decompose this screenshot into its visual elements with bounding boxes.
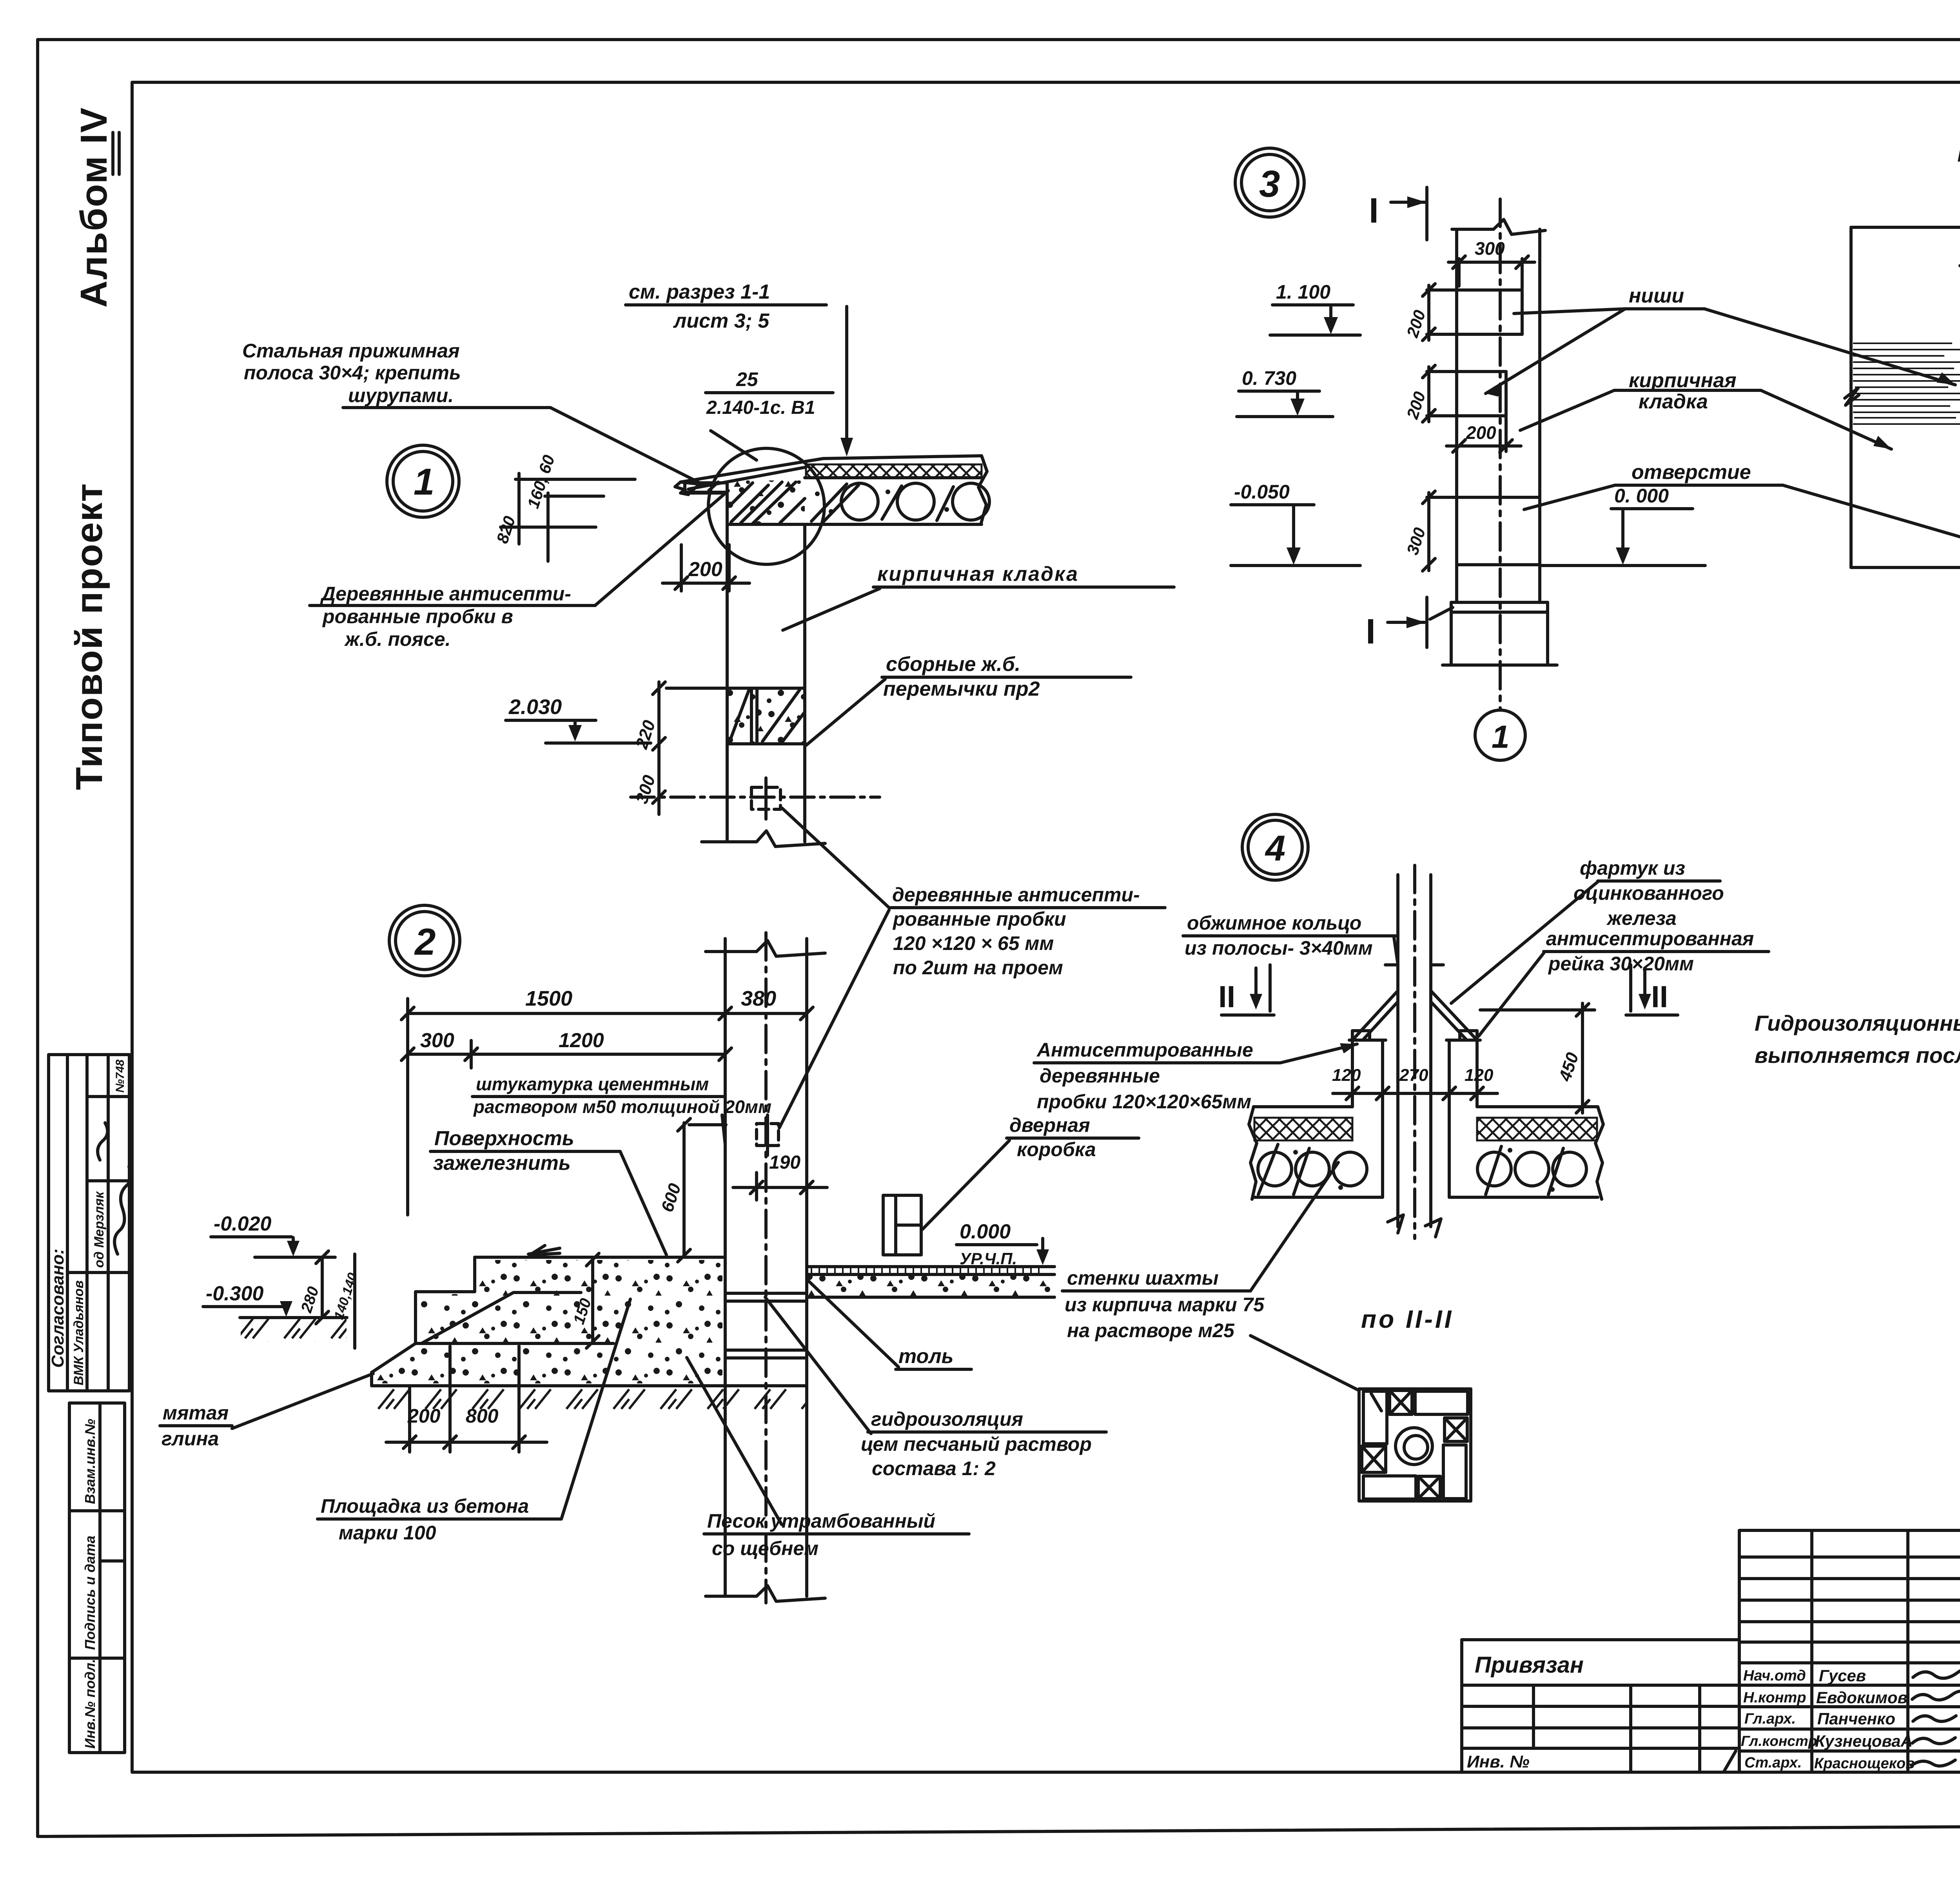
svg-text:Поверхность: Поверхность <box>434 1127 574 1150</box>
svg-text:200: 200 <box>688 558 722 581</box>
svg-text:перемычки пр2: перемычки пр2 <box>883 678 1040 700</box>
outer rect of plan <box>1851 226 1960 229</box>
svg-text:КузнецоваА: КузнецоваА <box>1815 1732 1913 1750</box>
privyazan block <box>1462 1640 1739 1772</box>
svg-text:120 ×120 × 65 мм: 120 ×120 × 65 мм <box>893 932 1054 954</box>
svg-text:железа: железа <box>1606 907 1677 929</box>
svg-text:кирпичная: кирпичная <box>1629 369 1737 392</box>
small left dims 820 /160,60 <box>517 473 521 544</box>
dim column 220 / 300 <box>657 682 661 814</box>
svg-text:300: 300 <box>420 1029 454 1052</box>
title block <box>1739 1530 1960 1820</box>
svg-text:Панченко: Панченко <box>1817 1709 1895 1728</box>
svg-text:200: 200 <box>407 1405 441 1427</box>
svg-text:Н.контр: Н.контр <box>1743 1689 1806 1706</box>
svg-text:кладка: кладка <box>1639 390 1708 413</box>
rotated margin text: Альбом IV <box>73 107 119 308</box>
svg-text:рейка 30×20мм: рейка 30×20мм <box>1548 953 1694 975</box>
svg-text:120: 120 <box>1332 1066 1361 1085</box>
wall lines <box>726 492 729 842</box>
left margin stamp: Согласовано <box>48 1055 132 1391</box>
svg-text:Гл.констр: Гл.констр <box>1741 1733 1817 1749</box>
clamp ring <box>1385 963 1398 966</box>
svg-text:выполняется после монтажа т: выполняется после монтажа трубопроводов <box>1755 1043 1960 1068</box>
svg-text:270: 270 <box>1399 1066 1428 1085</box>
svg-text:УР.Ч.П.: УР.Ч.П. <box>960 1249 1017 1268</box>
brick plan <box>1359 1389 1471 1501</box>
svg-text:120: 120 <box>1465 1066 1494 1085</box>
svg-text:1500: 1500 <box>525 987 572 1010</box>
roof slab <box>1254 1105 1352 1108</box>
svg-text:коробка: коробка <box>1017 1138 1096 1160</box>
opening zone <box>1457 496 1540 499</box>
plan view po I-I <box>1845 138 1960 576</box>
wooden plug square <box>751 787 780 809</box>
svg-text:Типовой проект: Типовой проект <box>68 483 110 790</box>
plug square in wall <box>757 1124 779 1146</box>
svg-text:мятая: мятая <box>163 1402 229 1424</box>
axis bubble 1 <box>1475 710 1525 760</box>
svg-text:-0.050: -0.050 <box>1234 481 1290 503</box>
svg-text:дверная: дверная <box>1009 1114 1090 1136</box>
floor right of wall <box>807 1265 1054 1268</box>
svg-text:Песок утрамбованный: Песок утрамбованный <box>707 1510 935 1532</box>
svg-text:2: 2 <box>414 921 436 963</box>
svg-text:раствором м50 толщиной 20мм: раствором м50 толщиной 20мм <box>473 1097 771 1117</box>
svg-text:Гл.арх.: Гл.арх. <box>1744 1711 1796 1727</box>
svg-text:0.000: 0.000 <box>960 1220 1011 1243</box>
svg-text:по I-I: по I-I <box>1957 138 1960 167</box>
base <box>1451 601 1548 604</box>
svg-text:II: II <box>1651 979 1668 1014</box>
lintel hatched <box>727 688 805 744</box>
svg-text:1. 100: 1. 100 <box>1276 281 1330 303</box>
svg-text:190: 190 <box>769 1152 800 1173</box>
svg-text:2.140-1с. В1: 2.140-1с. В1 <box>706 397 815 418</box>
crosshatch screed band over slab <box>806 464 982 478</box>
svg-text:из полосы- 3×40мм: из полосы- 3×40мм <box>1185 937 1373 959</box>
svg-text:рованные пробки в: рованные пробки в <box>322 605 513 627</box>
svg-text:I: I <box>1366 612 1376 651</box>
roofing note <box>1755 1011 1960 1068</box>
arrow on stoop top <box>528 1245 560 1255</box>
svg-text:рованные пробки: рованные пробки <box>892 908 1066 930</box>
dim 200 below niche2 <box>1504 417 1508 451</box>
svg-text:300: 300 <box>1475 238 1505 259</box>
svg-text:антисептированная: антисептированная <box>1546 928 1754 950</box>
left margin stamp: Взам.инв / Подпись / Инв <box>69 1403 125 1753</box>
svg-text:фартук из: фартук из <box>1580 857 1685 879</box>
svg-text:зажелезнить: зажелезнить <box>433 1152 571 1175</box>
svg-text:2.030: 2.030 <box>508 695 562 719</box>
svg-text:II: II <box>1218 979 1235 1014</box>
svg-text:1: 1 <box>414 461 434 503</box>
svg-text:-0.020: -0.020 <box>214 1213 272 1235</box>
svg-text:-0.300: -0.300 <box>206 1282 264 1305</box>
svg-text:№748: №748 <box>114 1059 127 1093</box>
svg-text:I: I <box>1369 191 1379 230</box>
svg-text:на растворе м25: на растворе м25 <box>1067 1320 1235 1341</box>
svg-text:ВМК Уладьянов: ВМК Уладьянов <box>71 1280 86 1385</box>
svg-text:марки 100: марки 100 <box>339 1522 436 1544</box>
svg-text:кирпичная кладка: кирпичная кладка <box>877 563 1079 586</box>
svg-text:обжимное кольцо: обжимное кольцо <box>1187 912 1361 934</box>
stoop concrete mass <box>475 1256 725 1259</box>
svg-text:Деревянные антисепти-: Деревянные антисепти- <box>320 583 571 605</box>
svg-text:деревянные антисепти-: деревянные антисепти- <box>892 884 1140 906</box>
svg-text:из кирпича марки 75: из кирпича марки 75 <box>1065 1294 1265 1316</box>
svg-text:оцинкованного: оцинкованного <box>1573 882 1724 904</box>
svg-text:сборные ж.б.: сборные ж.б. <box>886 653 1020 676</box>
svg-text:штукатурка цементным: штукатурка цементным <box>476 1074 709 1094</box>
rotated margin text: Типовой проект <box>68 483 110 790</box>
svg-text:глина: глина <box>162 1428 219 1450</box>
door frame <box>883 1195 921 1255</box>
svg-text:по 2шт на проем: по 2шт на проем <box>893 957 1063 979</box>
dim 450 <box>1480 1008 1595 1012</box>
svg-text:Альбом IV: Альбом IV <box>73 107 115 308</box>
svg-text:Ст.арх.: Ст.арх. <box>1744 1755 1802 1771</box>
svg-text:лист 3; 5: лист 3; 5 <box>673 310 769 332</box>
detail 3: pillar with niches <box>1231 148 1960 760</box>
dim 600 vertical <box>682 1123 686 1256</box>
dims 200,800 below <box>408 1387 411 1452</box>
svg-text:Инв. №: Инв. № <box>1467 1752 1530 1771</box>
top dimension chain 1500 / 380 <box>406 999 409 1215</box>
svg-text:Краснощеков: Краснощеков <box>1814 1755 1915 1772</box>
niche 1 <box>1458 288 1522 292</box>
svg-text:380: 380 <box>741 987 776 1010</box>
svg-text:см. разрез 1-1: см. разрез 1-1 <box>629 281 770 303</box>
label wooden antiseptic plugs 120x120x65 <box>779 808 1165 1128</box>
svg-text:шурупами.: шурупами. <box>348 384 454 406</box>
detail 4: pipe through roof <box>1034 814 1769 1501</box>
svg-text:отверстие: отверстие <box>1632 461 1751 484</box>
roof screed slope lines <box>681 459 823 482</box>
svg-text:Стальная прижимная: Стальная прижимная <box>242 340 460 362</box>
svg-text:Евдокимов: Евдокимов <box>1816 1688 1907 1707</box>
pipe <box>1396 875 1399 1227</box>
svg-text:1200: 1200 <box>559 1029 604 1052</box>
svg-text:ниши: ниши <box>1629 285 1684 307</box>
svg-text:3: 3 <box>1259 163 1280 205</box>
ground hatch left <box>241 1318 347 1342</box>
svg-text:25: 25 <box>736 368 759 390</box>
small dim 280 <box>321 1257 324 1318</box>
chain line at plug level <box>631 796 880 799</box>
svg-text:гидроизоляция: гидроизоляция <box>871 1408 1023 1430</box>
svg-text:Взам.инв.№: Взам.инв.№ <box>82 1419 98 1504</box>
svg-text:Площадка из бетона: Площадка из бетона <box>321 1495 529 1517</box>
steel strip at tip <box>675 482 706 495</box>
detail 2: entrance stoop / foundation node <box>160 905 1139 1603</box>
svg-text:Гусев: Гусев <box>1819 1666 1866 1685</box>
svg-text:по II-II: по II-II <box>1361 1305 1454 1333</box>
svg-text:Антисептированные: Антисептированные <box>1036 1039 1253 1061</box>
svg-text:Привязан: Привязан <box>1475 1652 1584 1678</box>
wall <box>724 939 727 1596</box>
svg-text:пробки 120×120×65мм.: пробки 120×120×65мм. <box>1037 1091 1257 1113</box>
svg-text:1: 1 <box>1492 719 1510 755</box>
svg-text:цем песчаный раствор: цем песчаный раствор <box>861 1433 1092 1455</box>
svg-text:со щебнем: со щебнем <box>712 1537 818 1559</box>
detail circle 4 <box>1242 814 1308 880</box>
svg-text:Нач.отд: Нач.отд <box>1743 1668 1806 1684</box>
svg-text:полоса 30×4; крепить: полоса 30×4; крепить <box>244 362 461 384</box>
detail circle 2 <box>389 905 460 976</box>
svg-text:Подпись и дата: Подпись и дата <box>82 1535 98 1650</box>
pillar <box>1455 229 1458 602</box>
svg-text:200: 200 <box>1466 422 1496 443</box>
svg-text:4: 4 <box>1265 828 1285 868</box>
svg-text:0. 730: 0. 730 <box>1242 367 1296 389</box>
hydro layers in wall <box>725 1292 807 1295</box>
big detail circle <box>708 448 824 564</box>
detail circle 3 <box>1235 148 1304 217</box>
svg-text:800: 800 <box>466 1405 499 1427</box>
dim 150 vertical inside <box>591 1260 594 1342</box>
brick coursing hatch left <box>1853 343 1960 424</box>
ground hatch under stoop <box>373 1387 807 1412</box>
detail 1: eaves / wall top node <box>242 281 1174 847</box>
svg-text:состава 1: 2: состава 1: 2 <box>872 1457 996 1479</box>
shaft walls <box>1351 1040 1354 1107</box>
detail circle 1 <box>387 445 459 517</box>
svg-text:Гидроизоляционный ковер кров: Гидроизоляционный ковер кровли <box>1755 1011 1960 1035</box>
hollow-core slab <box>727 523 982 526</box>
svg-text:Инв.№ подл.: Инв.№ подл. <box>82 1659 98 1749</box>
svg-text:деревянные: деревянные <box>1040 1065 1160 1087</box>
niche 2 <box>1458 370 1506 373</box>
floor line + level 0.000 <box>1457 563 1540 566</box>
dim 200 below cornice <box>680 545 683 591</box>
svg-text:Согласовано:: Согласовано: <box>48 1249 67 1368</box>
r.c. belt hatched <box>685 483 727 493</box>
svg-text:толь: толь <box>898 1345 954 1368</box>
svg-text:ж.б. поясе.: ж.б. поясе. <box>344 628 450 650</box>
svg-text:од Мерзляк: од Мерзляк <box>92 1191 107 1268</box>
svg-text:0. 000: 0. 000 <box>1614 485 1669 507</box>
apron slopes <box>1352 991 1398 1040</box>
svg-text:стенки шахты: стенки шахты <box>1067 1267 1219 1289</box>
